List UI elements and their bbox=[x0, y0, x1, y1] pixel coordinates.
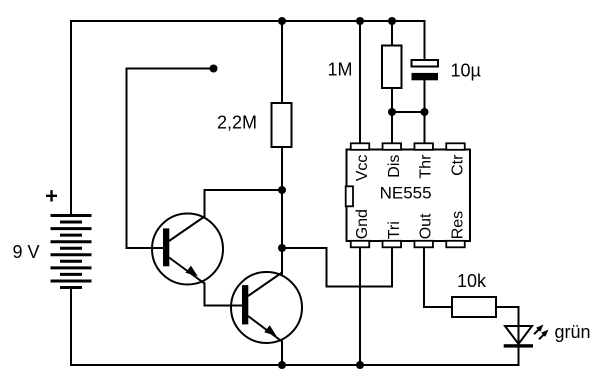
node junction Q1 collector / 2,2M branch bbox=[278, 186, 286, 194]
node junction top rail / Vcc drop bbox=[356, 17, 364, 25]
transistor Q2 collector lead bbox=[248, 273, 282, 297]
U1 pin box Res bbox=[446, 241, 465, 248]
transistor Q2 emitter lead bbox=[248, 316, 282, 342]
transistor Q1 base bar bbox=[163, 228, 169, 266]
U1 pin box Thr bbox=[414, 143, 433, 150]
svg-text:+: + bbox=[45, 184, 58, 209]
node junction top rail / 1M branch bbox=[388, 17, 396, 25]
svg-text:Vcc: Vcc bbox=[354, 155, 371, 182]
U1 notch bbox=[346, 186, 353, 206]
wire resistor 10k right to LED anode bbox=[496, 307, 519, 347]
LED light arrow 2 bbox=[539, 334, 544, 339]
svg-text:10µ: 10µ bbox=[451, 61, 481, 81]
resistor 1M bbox=[382, 46, 402, 89]
svg-text:Gnd: Gnd bbox=[354, 209, 371, 239]
LED light arrow 1 bbox=[534, 329, 539, 334]
node junction capacitor bottom / Thr bbox=[421, 108, 429, 116]
battery BT1 9V cells bbox=[51, 216, 92, 288]
svg-text:10k: 10k bbox=[457, 271, 487, 291]
svg-text:Ctr: Ctr bbox=[450, 154, 467, 176]
transistor Q2 base bar bbox=[242, 285, 248, 324]
wire Q1 emitter down and right to Q2 base bbox=[205, 284, 243, 306]
svg-text:Tri: Tri bbox=[386, 221, 403, 239]
wire battery negative to bottom ground rail and LED cathode bbox=[71, 288, 519, 365]
capacitor 10µ electrolytic top plate bbox=[412, 60, 439, 67]
wire top rail to resistor 1M bbox=[391, 21, 393, 46]
node junction Q2 collector / trigger wire bbox=[278, 244, 286, 252]
wire top rail to resistor 2,2M bbox=[281, 21, 283, 103]
svg-text:9 V: 9 V bbox=[13, 242, 40, 262]
node junction Gnd wire / ground rail bbox=[356, 361, 364, 369]
U1 pin box Ctr bbox=[446, 143, 465, 150]
svg-text:2,2M: 2,2M bbox=[217, 113, 257, 133]
transistor Q1 circle bbox=[152, 214, 223, 285]
svg-text:Out: Out bbox=[418, 213, 435, 239]
wire resistor 1M bottom to pin Dis bbox=[391, 88, 393, 144]
LED D1 triangle bbox=[505, 326, 532, 344]
wire Vcc drop from top rail to pin Vcc bbox=[359, 21, 361, 144]
resistor 2,2M bbox=[272, 103, 292, 147]
svg-text:1M: 1M bbox=[327, 60, 352, 80]
wire positive rail: battery plus up, across top, down to capacitor bbox=[71, 21, 425, 216]
wire pin Gnd down to ground rail (crosses trigger wire) bbox=[359, 248, 361, 366]
wire trigger path: Q2 collector node right, down, right, up to pin Tri bbox=[282, 248, 392, 287]
wire Q1 collector up and right to 2,2M branch node bbox=[205, 190, 283, 217]
svg-text:NE555: NE555 bbox=[380, 183, 432, 202]
svg-text:Thr: Thr bbox=[418, 154, 435, 179]
wire touch contact: open terminal left and down to Q1 base bbox=[127, 69, 214, 249]
transistor Q1 emitter lead bbox=[169, 258, 205, 284]
wire pin Out down and right to resistor 10k bbox=[424, 248, 452, 308]
U1 pin box Vcc bbox=[351, 143, 370, 150]
node touch contact terminal dot bbox=[210, 65, 218, 73]
U1 pin box Gnd bbox=[351, 241, 370, 248]
node junction Q2 emitter / ground rail bbox=[278, 361, 286, 369]
wire resistor 2,2M bottom down to Q2 collector node bbox=[281, 147, 283, 275]
transistor Q1 collector lead bbox=[169, 217, 205, 242]
svg-text:Dis: Dis bbox=[386, 155, 403, 178]
transistor Q2 emitter arrow bbox=[264, 325, 276, 336]
transistor Q2 circle bbox=[231, 272, 302, 343]
U1 pin box Tri bbox=[383, 241, 402, 248]
wire capacitor bottom to pin Thr bbox=[424, 80, 426, 144]
node junction top rail / 2,2M branch bbox=[278, 17, 286, 25]
LED D1 cathode bar bbox=[504, 344, 533, 347]
IC U1 NE555 body bbox=[347, 150, 471, 242]
svg-text:grün: grün bbox=[555, 322, 591, 342]
svg-text:Res: Res bbox=[450, 211, 467, 239]
wire linking 1M bottom node to capacitor bottom node bbox=[392, 111, 425, 113]
resistor 10k bbox=[452, 297, 496, 317]
U1 pin box Out bbox=[414, 241, 433, 248]
transistor Q1 emitter arrow bbox=[186, 266, 198, 277]
wire Q2 emitter down to ground rail bbox=[281, 342, 283, 366]
node junction 1M bottom / Dis bbox=[388, 108, 396, 116]
U1 pin box Dis bbox=[383, 143, 402, 150]
capacitor 10µ electrolytic bottom plate bbox=[412, 73, 439, 80]
